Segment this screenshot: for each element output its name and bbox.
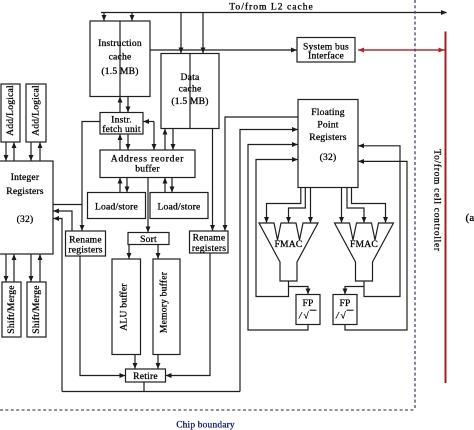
svg-text:Interface: Interface bbox=[308, 51, 344, 62]
box: Sort bbox=[128, 233, 169, 245]
box: Add/Logical 2 bbox=[26, 84, 46, 142]
wire: fetch-ARB up bbox=[119, 135, 121, 151]
svg-text:(a: (a bbox=[466, 212, 474, 224]
svg-text:Data: Data bbox=[181, 72, 200, 83]
svg-text:Chip boundary: Chip boundary bbox=[176, 421, 235, 430]
svg-text:ALU buffer: ALU buffer bbox=[119, 283, 130, 331]
svg-text:Floating: Floating bbox=[311, 107, 345, 118]
wire: left rename registers to retire bbox=[80, 256, 125, 376]
svg-text:cache: cache bbox=[179, 84, 202, 95]
wire: FP registers to right FMAC input 3 bbox=[352, 188, 386, 223]
svg-text:Shift/Merge: Shift/Merge bbox=[31, 285, 42, 333]
wire: fetch right L to ARB, arrow into fetch bbox=[144, 121, 155, 123]
svg-text:Memory buffer: Memory buffer bbox=[159, 271, 170, 333]
svg-text:FMAC: FMAC bbox=[275, 239, 303, 250]
wire: divider inside data cache bbox=[189, 54, 191, 129]
box: FP divide/sqrt right bbox=[333, 295, 357, 325]
svg-text:(32): (32) bbox=[17, 214, 34, 225]
box: Floating Point Registers bbox=[298, 100, 358, 188]
wire: FP registers to left FMAC input 2 bbox=[289, 188, 306, 223]
wire: add/logical 2 result down bbox=[30, 142, 32, 161]
svg-text:√: √ bbox=[304, 311, 310, 322]
wire: shift/merge 1 operand down bbox=[5, 254, 7, 282]
box: Instruction cache bbox=[90, 21, 150, 97]
wire: bus to data cache left arrow bbox=[180, 13, 182, 53]
wire: instruction cache to system bus interface bbox=[150, 49, 297, 51]
box: Add/Logical 1 bbox=[1, 84, 20, 142]
wire: FP registers to left FMAC input 3 bbox=[310, 188, 312, 223]
wire: bus to data cache right arrow bbox=[202, 13, 204, 53]
wire: FMAC right output branch to FP divide/sqrt bbox=[345, 287, 364, 295]
wire: FMAC left output wrap to FP registers bbox=[256, 160, 298, 297]
svg-text:To/from L2 cache: To/from L2 cache bbox=[229, 2, 314, 13]
wire: red cell controller vertical bus bbox=[445, 32, 447, 384]
box: ALU buffer bbox=[112, 259, 141, 355]
wire: ARB-load/store right up bbox=[164, 178, 166, 193]
box: Load/store left bbox=[88, 193, 146, 219]
svg-text:To/from cell controller: To/from cell controller bbox=[432, 149, 443, 252]
svg-text:registers: registers bbox=[192, 243, 226, 254]
svg-text:(1.5 MB): (1.5 MB) bbox=[101, 66, 138, 77]
wire: icache-fetch down bbox=[127, 97, 129, 113]
svg-text:Registers: Registers bbox=[6, 186, 44, 197]
wire: add/logical 1 result down bbox=[5, 142, 7, 161]
wire: shift/merge 2 result up bbox=[39, 255, 41, 283]
svg-text:Rename: Rename bbox=[193, 233, 226, 244]
wire: FP divide/sqrt left output wrap bbox=[248, 145, 308, 331]
wire: FMAC right output wrap to FP registers bbox=[359, 146, 401, 297]
box: Instr. fetch unit bbox=[100, 113, 143, 135]
wire: ALU buffer to retire bbox=[134, 355, 136, 369]
shape: FMAC left funnel bbox=[259, 223, 318, 281]
svg-text:FP: FP bbox=[339, 298, 350, 309]
svg-text:Integer: Integer bbox=[11, 172, 40, 183]
svg-text:FP: FP bbox=[302, 298, 313, 309]
wire: left rename registers to integer registers bbox=[54, 211, 73, 231]
svg-text:Registers: Registers bbox=[309, 132, 347, 143]
wire: right rename registers to retire bbox=[166, 253, 210, 376]
svg-text:Load/store: Load/store bbox=[95, 202, 138, 213]
wire: FP registers to left FMAC input 1 bbox=[267, 188, 301, 223]
svg-text:(1.5 MB): (1.5 MB) bbox=[171, 96, 208, 107]
svg-text:cache: cache bbox=[109, 52, 132, 63]
wire: FP registers to right rename registers bbox=[225, 117, 298, 231]
wire: data cache to right rename registers bbox=[212, 129, 214, 231]
svg-text:(32): (32) bbox=[320, 152, 337, 163]
svg-text:Shift/Merge: Shift/Merge bbox=[6, 285, 17, 333]
wire: red arrow into system bus interface bbox=[359, 49, 447, 51]
wire: ARB-load/store left down bbox=[126, 178, 128, 193]
box: Memory buffer bbox=[153, 259, 180, 355]
box: Shift/Merge 2 bbox=[27, 282, 46, 337]
wire: FP divide/sqrt right output wrap bbox=[345, 161, 407, 330]
wire: bus to instruction cache right arrow bbox=[131, 13, 133, 21]
svg-text:registers: registers bbox=[68, 245, 102, 256]
svg-text:Instruction: Instruction bbox=[98, 38, 142, 49]
wire: divider inside instruction cache bbox=[119, 21, 121, 97]
wire: FMAC left output branch to FP divide/sqrt bbox=[289, 287, 309, 295]
shape: FMAC right funnel bbox=[335, 223, 394, 281]
wire: fetch left down to left rename registers bbox=[82, 122, 100, 231]
svg-text:√: √ bbox=[341, 311, 347, 322]
box: Rename registers left bbox=[66, 231, 106, 256]
svg-text:buffer: buffer bbox=[135, 164, 160, 175]
svg-text:Point: Point bbox=[317, 120, 338, 131]
wire: L2 cache bus bbox=[101, 12, 447, 14]
wire: fetch-ARB down bbox=[127, 134, 129, 150]
wire: ARB to sort bbox=[147, 178, 149, 233]
wire: bus to instruction cache left arrow bbox=[103, 13, 105, 21]
wire: retire writeback to integer registers bbox=[54, 219, 63, 392]
svg-text:Add/Logical: Add/Logical bbox=[5, 85, 16, 136]
svg-text:fetch unit: fetch unit bbox=[102, 124, 141, 135]
box: Retire bbox=[126, 369, 166, 382]
box: Load/store right bbox=[150, 193, 208, 219]
wire: integer registers branch to rename path bbox=[53, 204, 82, 206]
svg-text:FMAC: FMAC bbox=[350, 239, 378, 250]
wire: ARB-load/store left up bbox=[119, 178, 121, 193]
wire: add/logical 2 operand up bbox=[39, 143, 41, 162]
wire: fetch right L to ARB, down into ARB bbox=[153, 122, 155, 150]
wire: retire writeback to FP registers bbox=[240, 130, 298, 392]
wire: dcache-ARB down bbox=[172, 129, 174, 150]
box: Shift/Merge 1 bbox=[2, 282, 21, 337]
box: Address reorder buffer bbox=[100, 150, 195, 178]
wire: sort to memory buffer bbox=[157, 245, 159, 259]
box: Integer Registers bbox=[0, 161, 53, 254]
box: FP divide/sqrt left bbox=[296, 295, 320, 325]
wire: shift/merge 1 result up bbox=[13, 255, 15, 283]
svg-text:Sort: Sort bbox=[140, 234, 157, 245]
wire: ARB-load/store right down bbox=[171, 178, 173, 193]
svg-text:Load/store: Load/store bbox=[157, 202, 200, 213]
svg-text:Retire: Retire bbox=[133, 371, 158, 382]
wire: FP registers to right FMAC input 1 bbox=[341, 188, 343, 223]
wire: dcache-ARB up bbox=[164, 129, 166, 150]
box: System bus Interface bbox=[297, 38, 355, 63]
box: Rename registers right bbox=[190, 231, 229, 253]
wire: sort to ALU buffer bbox=[128, 245, 130, 259]
wire: shift/merge 2 operand down bbox=[30, 254, 32, 282]
boundary: chip boundary dashed vertical bbox=[414, 0, 416, 410]
wire: memory buffer to retire bbox=[157, 355, 159, 369]
wire: add/logical 1 operand up bbox=[13, 143, 15, 162]
wire: icache-fetch up bbox=[119, 97, 121, 113]
boundary: chip boundary dashed horizontal bbox=[0, 409, 415, 411]
wire: FP registers to right FMAC input 2 bbox=[347, 188, 364, 223]
wire: writeback bus horizontal bbox=[62, 391, 240, 393]
wire: retire bottom to writeback bus bbox=[143, 382, 145, 392]
wire: red cell controller bus horizontal bbox=[358, 49, 444, 51]
box: Data cache bbox=[161, 54, 219, 129]
svg-text:Add/Logical: Add/Logical bbox=[31, 85, 42, 136]
